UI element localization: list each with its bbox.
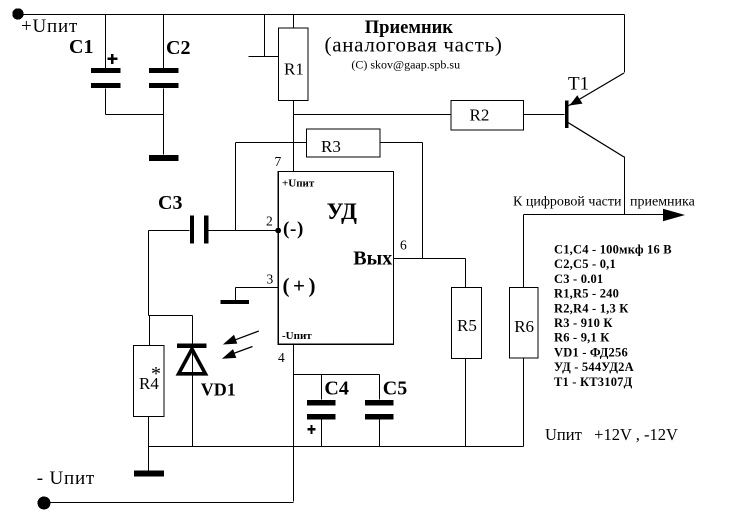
wire rail stub vertical left of R1: [264, 15, 266, 57]
transistor T1: [565, 73, 624, 157]
wire C5 bottom: [379, 420, 381, 447]
svg-text:К цифровой части: К цифровой части: [513, 195, 622, 210]
wire R1 top: [293, 15, 295, 29]
node pin 2 junction: [275, 228, 281, 234]
svg-text:C1: C1: [69, 36, 93, 58]
wire C2 top: [163, 15, 165, 69]
wire R4 bottom: [148, 417, 150, 471]
svg-text:2: 2: [266, 214, 273, 229]
wire C1 bottom: [105, 89, 107, 115]
svg-text:R3: R3: [321, 137, 341, 156]
svg-text:(C) skov@gaap.spb.su: (C) skov@gaap.spb.su: [351, 58, 460, 72]
wire C4 top: [321, 375, 323, 400]
wire node to R2: [294, 114, 451, 116]
wire output pin6: [394, 258, 466, 260]
svg-text:приемника: приемника: [630, 194, 696, 209]
svg-text:(-): (-): [283, 219, 304, 240]
capacitor C1: [91, 54, 121, 88]
svg-text:6: 6: [400, 238, 407, 253]
svg-text:R5: R5: [457, 316, 477, 335]
wire pin 3 ground drop: [235, 288, 237, 301]
resistor R6: [509, 288, 538, 358]
wire C3 left down: [148, 231, 150, 316]
svg-text:R3 - 910 К: R3 - 910 К: [554, 316, 613, 330]
photodiode VD1: [177, 343, 207, 374]
resistor R2: [451, 101, 524, 130]
wire C1 to C2: [106, 114, 164, 116]
ground at pin 3: [221, 300, 250, 304]
svg-text:R2,R4 - 1,3 К: R2,R4 - 1,3 К: [554, 301, 629, 315]
wire stub to R1 left side: [249, 56, 279, 58]
svg-text:-Uпит: -Uпит: [282, 330, 312, 342]
wire C2 bottom: [163, 89, 165, 155]
wire C4 bottom: [321, 420, 323, 447]
wire R6 bottom: [523, 358, 525, 447]
ground under C2: [149, 155, 179, 161]
wire T1 emitter up to rail: [624, 15, 626, 73]
capacitor C5: [365, 400, 394, 420]
svg-text:VD1 - ФД256: VD1 - ФД256: [554, 345, 628, 359]
svg-text:C3 - 0.01: C3 - 0.01: [554, 272, 603, 286]
svg-text:Вых: Вых: [353, 248, 392, 270]
svg-text:R6 - 9,1 К: R6 - 9,1 К: [554, 331, 610, 345]
wire to pin 2: [209, 230, 279, 232]
wire R2 to T1 base: [524, 114, 565, 116]
svg-text:C5: C5: [383, 378, 407, 400]
resistor R3: [306, 129, 380, 157]
wire junction horizontal to VD1: [149, 315, 193, 317]
wire R5 bottom: [465, 359, 467, 447]
node -Upit terminal: [38, 497, 51, 510]
svg-text:- Uпит: - Uпит: [37, 468, 95, 489]
wire pin 3: [236, 287, 279, 289]
svg-text:+Uпит: +Uпит: [21, 16, 78, 37]
resistor R4: [134, 346, 164, 417]
wire R3 down to output: [422, 143, 424, 259]
capacitor C2: [149, 68, 179, 88]
light arrow 2: [222, 347, 253, 359]
resistor R1: [278, 28, 308, 100]
wire C5 top: [379, 375, 381, 400]
capacitor C3: [190, 215, 208, 243]
light arrow 1: [223, 331, 259, 345]
svg-text:C1,C4 - 100мкф 16 В: C1,C4 - 100мкф 16 В: [554, 243, 672, 257]
svg-text:УД - 544УД2А: УД - 544УД2А: [554, 360, 634, 374]
parts list: [554, 243, 672, 389]
svg-text:R1: R1: [284, 60, 304, 79]
wire VD1 vertical: [192, 316, 194, 447]
wire top +U rail: [19, 14, 625, 16]
svg-text:3: 3: [267, 272, 274, 287]
svg-text:VD1: VD1: [201, 380, 236, 400]
svg-text:R6: R6: [514, 317, 534, 336]
svg-text:T1: T1: [568, 74, 589, 95]
wire R5 top: [465, 259, 467, 288]
svg-text:7: 7: [275, 154, 282, 169]
wire R3 right: [381, 142, 423, 144]
resistor R5: [452, 288, 482, 359]
svg-text:R1,R5 - 240: R1,R5 - 240: [554, 287, 619, 301]
svg-text:(аналоговая часть): (аналоговая часть): [325, 33, 503, 57]
wire R4 top: [149, 316, 151, 346]
svg-text:Т1 - КТ3107Д: Т1 - КТ3107Д: [554, 375, 633, 389]
svg-text:C3: C3: [158, 192, 182, 214]
wire C1 top: [105, 15, 107, 69]
wire R6 top: [523, 215, 525, 288]
svg-text:(+): (+): [283, 274, 319, 298]
wire C4 C5 top rail: [294, 374, 380, 376]
capacitor C4: [307, 400, 336, 434]
svg-text:+Uпит: +Uпит: [282, 178, 315, 190]
wire C3 left: [149, 230, 190, 232]
wire feedback vertical: [235, 143, 237, 231]
ground under R4: [134, 470, 164, 476]
wire feedback horizontal: [236, 142, 307, 144]
svg-text:4: 4: [278, 350, 285, 365]
op-amp U1: [278, 172, 393, 345]
wire output to digital part with arrow: [524, 209, 686, 221]
svg-text:C4: C4: [324, 378, 348, 400]
svg-text:УД: УД: [327, 199, 358, 224]
svg-text:C2,C5 - 0,1: C2,C5 - 0,1: [554, 257, 616, 271]
wire R1 bottom to op-amp pin7: [293, 101, 295, 172]
svg-text:*: *: [151, 363, 161, 385]
wire -U horizontal bus: [149, 446, 524, 448]
svg-text:Uпит +12V , -12V: Uпит +12V , -12V: [545, 425, 678, 444]
svg-text:C2: C2: [166, 37, 190, 59]
svg-text:R2: R2: [470, 105, 490, 124]
wire pin 4 down: [293, 345, 295, 502]
wire bottom -U rail: [45, 502, 294, 504]
node +Upit terminal: [12, 8, 23, 19]
wire T1 collector down: [624, 157, 626, 215]
